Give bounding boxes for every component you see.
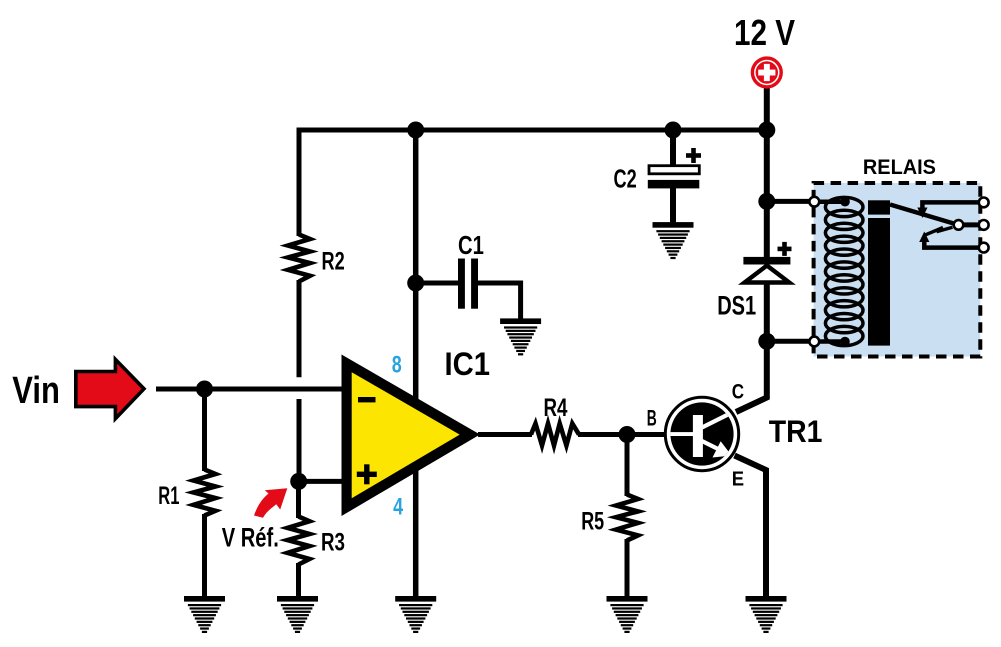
ground emitter — [746, 596, 787, 633]
junction dot top rail / C2 — [665, 122, 682, 139]
relay terminal right bottom — [979, 243, 989, 253]
resistor R5 — [616, 495, 638, 541]
junction dot base / R5 — [619, 426, 636, 443]
wire C1 left — [416, 281, 459, 286]
junction dot top rail / opamp supply — [407, 122, 424, 139]
wire coil top lead — [814, 199, 846, 204]
junction dot R2 / R3 / +input — [290, 473, 307, 490]
wire R4 to base — [578, 432, 668, 437]
wire R5 bottom stub — [625, 539, 630, 596]
capacitor C1 — [458, 259, 478, 309]
wire C1 right — [478, 283, 521, 319]
svg-text:C1: C1 — [458, 230, 484, 260]
relay contact NC — [917, 202, 983, 218]
svg-text:R2: R2 — [322, 248, 345, 276]
ground R3 — [277, 596, 318, 633]
wire 12V stub — [764, 86, 770, 130]
resistor R3 — [288, 517, 310, 565]
capacitor C2 — [648, 166, 700, 189]
junction dot Vin / R1 — [196, 381, 213, 398]
junction dot top rail / 12V — [758, 122, 775, 139]
wire top rail — [297, 128, 767, 133]
transistor TR1 — [665, 397, 740, 470]
wire R5 top stub — [625, 435, 630, 497]
resistor R2 — [288, 235, 310, 282]
resistor R4 — [531, 424, 579, 446]
svg-text:IC1: IC1 — [445, 345, 491, 382]
svg-text:R3: R3 — [321, 528, 345, 556]
12V supply symbol — [752, 58, 781, 87]
relay common wire — [959, 222, 984, 227]
ground opamp — [395, 596, 436, 633]
wire C2 stub bottom — [670, 187, 676, 223]
relay terminal left top — [809, 197, 819, 207]
wire relay bottom terminal — [767, 339, 812, 344]
relay core — [868, 200, 890, 214]
wire opamp output — [478, 432, 532, 437]
ground R1 — [184, 596, 225, 633]
C2 plus sign — [686, 148, 701, 163]
relay contact NO — [919, 232, 984, 248]
relay terminal left bottom — [809, 337, 819, 347]
diode DS1 — [743, 257, 790, 283]
wire R2 vertical below crossing — [297, 399, 302, 483]
junction dot diode top / relay — [758, 193, 775, 210]
relay box RELAIS — [814, 183, 981, 357]
junction dot C1 branch — [407, 275, 424, 292]
V Ref arrow — [254, 488, 287, 518]
svg-text:DS1: DS1 — [717, 290, 756, 320]
wire +V vertical lower (diode to collector bend) — [736, 281, 767, 412]
relay pivot — [954, 220, 964, 230]
coil junction dot top — [840, 197, 850, 207]
relay terminal right middle — [979, 220, 989, 230]
svg-text:4: 4 — [393, 494, 403, 521]
relay contact leaf — [926, 227, 953, 235]
svg-text:B: B — [647, 406, 657, 431]
wire emitter — [735, 456, 767, 597]
wire noninverting input — [299, 479, 346, 484]
svg-text:12 V: 12 V — [734, 12, 795, 53]
svg-text:V Réf.: V Réf. — [222, 523, 279, 553]
svg-text:RELAIS: RELAIS — [863, 155, 936, 179]
wire R1 bottom stub — [202, 514, 207, 596]
coil junction dot bottom — [840, 337, 850, 347]
wire relay top terminal — [767, 199, 812, 204]
ground C2 — [653, 222, 694, 259]
ground R5 — [607, 596, 648, 633]
wire R2 vertical middle — [297, 280, 302, 377]
ground C1 — [500, 318, 541, 355]
Vin arrow — [76, 359, 144, 418]
wire R3 bottom stub — [296, 563, 301, 596]
wire Vin input — [156, 387, 346, 392]
svg-text:E: E — [732, 468, 744, 490]
svg-text:C: C — [732, 380, 744, 404]
DS1 plus sign — [778, 242, 792, 256]
svg-text:R5: R5 — [581, 508, 604, 536]
svg-text:R4: R4 — [544, 394, 568, 422]
wire R2 vertical top — [297, 128, 302, 237]
relay terminal right top — [979, 198, 989, 208]
svg-text:TR1: TR1 — [769, 413, 823, 449]
relay coil — [825, 197, 863, 345]
wire R3 top stub — [296, 481, 301, 518]
wire R1 top stub — [202, 389, 207, 471]
wire coil bottom lead — [814, 339, 846, 344]
svg-text:Vin: Vin — [12, 369, 60, 412]
relay armature — [890, 205, 957, 225]
svg-text:C2: C2 — [614, 163, 637, 193]
op-amp IC1 — [342, 355, 481, 517]
svg-text:R1: R1 — [158, 482, 179, 510]
svg-text:8: 8 — [392, 351, 402, 378]
resistor R1 — [194, 470, 216, 516]
wire opamp supply vertical — [413, 130, 419, 596]
wire +V vertical upper — [764, 130, 770, 258]
junction dot diode bottom / relay — [758, 333, 775, 350]
wire C2 stub top — [670, 130, 676, 167]
